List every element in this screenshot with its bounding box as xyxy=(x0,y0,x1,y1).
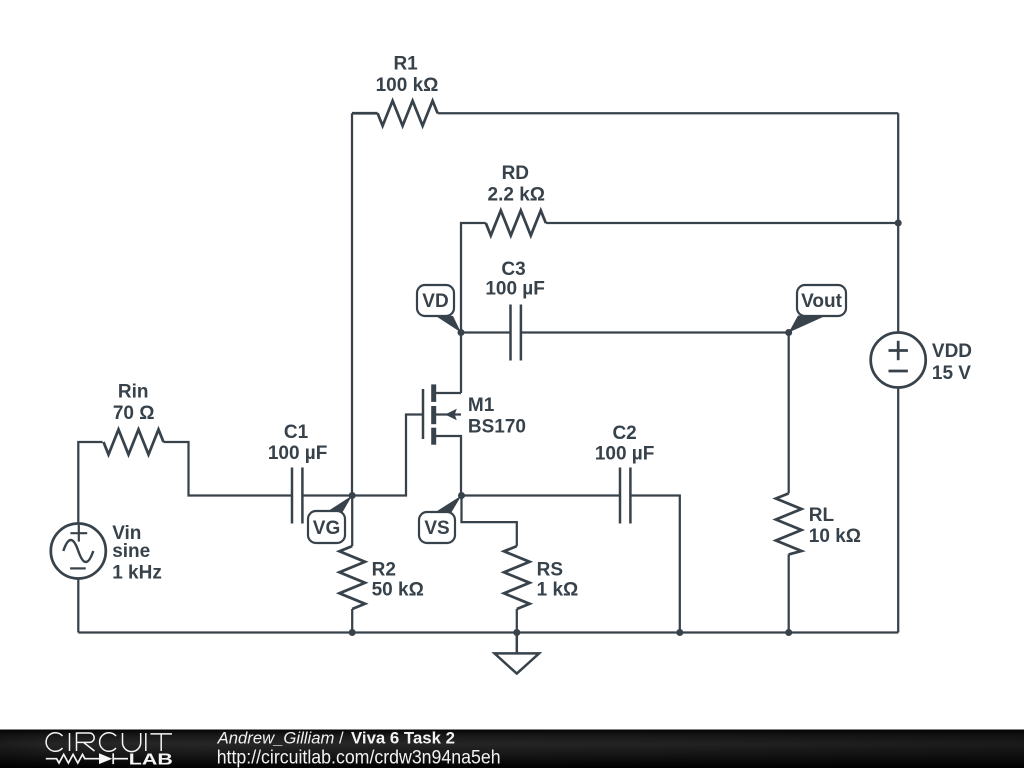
VDD plus sign xyxy=(889,341,908,360)
footer bar xyxy=(0,730,1024,768)
logo letter C xyxy=(46,733,62,752)
logo letter I xyxy=(145,733,147,751)
node dot VG xyxy=(349,492,356,499)
voltage source VDD circle xyxy=(871,333,926,388)
transistor M1 channel dash drain xyxy=(431,384,436,402)
svg-text:VD: VD xyxy=(422,291,448,312)
svg-text:M1: M1 xyxy=(468,395,495,416)
svg-text:Andrew_Gilliam / Viva 6 Task 2: Andrew_Gilliam / Viva 6 Task 2 xyxy=(217,730,455,748)
svg-text:100 µF: 100 µF xyxy=(595,444,655,465)
logo letter T xyxy=(150,734,172,751)
node dot C2 bottom xyxy=(676,629,683,636)
node dot VD xyxy=(458,329,465,336)
transistor M1 gate line xyxy=(422,389,425,439)
wire M1 drain lead up to RD xyxy=(436,392,461,394)
svg-text:Rin: Rin xyxy=(118,381,149,402)
svg-text:100 µF: 100 µF xyxy=(268,443,328,464)
logo letter R xyxy=(77,733,95,751)
Vin plus sign xyxy=(70,525,87,542)
node dot VS xyxy=(458,492,465,499)
wire RS bottom lead xyxy=(516,609,518,633)
resistor RS zigzag xyxy=(504,546,530,609)
node flag Vout xyxy=(789,285,846,333)
wire node VG to gate of M1 xyxy=(352,415,423,496)
node flag VD xyxy=(417,285,461,333)
wire right vertical rail from top corner to VDD top xyxy=(897,113,899,332)
logo letter I xyxy=(69,733,71,751)
resistor RL zigzag xyxy=(776,493,802,554)
svg-text:LAB: LAB xyxy=(129,752,173,768)
wire RL bottom lead to ground rail xyxy=(788,554,790,632)
wire M1 source lead down to VS xyxy=(436,436,461,496)
svg-text:70 Ω: 70 Ω xyxy=(113,403,155,424)
logo letter C xyxy=(100,733,116,752)
svg-text:VS: VS xyxy=(424,518,449,539)
footer logo CIRCUIT wordmark xyxy=(46,733,172,752)
ground symbol xyxy=(495,633,540,674)
svg-text:1 kΩ: 1 kΩ xyxy=(537,580,579,601)
wire C1 right plate to node VG xyxy=(302,494,352,496)
svg-text:Vout: Vout xyxy=(801,291,842,312)
wire M1 body lead xyxy=(436,413,461,415)
node dot RS bottom xyxy=(513,629,520,636)
VDD minus sign xyxy=(889,370,908,373)
transistor M1 body arrow xyxy=(445,409,457,421)
capacitor C1 plates xyxy=(292,468,302,524)
svg-text:100 kΩ: 100 kΩ xyxy=(376,75,439,96)
voltage source Vin circle xyxy=(51,524,106,579)
node flag VS xyxy=(419,496,462,544)
svg-text:http://circuitlab.com/crdw3n94: http://circuitlab.com/crdw3n94na5eh xyxy=(217,748,501,768)
transistor M1 channel dash source xyxy=(431,428,436,445)
wire node VD to C3 left plate xyxy=(461,331,511,333)
wire C3 right plate to node Vout xyxy=(521,331,789,333)
wire left vertical from R1 down to node VG xyxy=(351,113,353,495)
wire RD right lead to right rail xyxy=(546,222,898,224)
capacitor C3 plates xyxy=(511,305,521,361)
svg-text:C1: C1 xyxy=(284,422,309,443)
wire Vin bottom vertical to ground rail xyxy=(77,579,79,633)
node junction dots xyxy=(349,220,902,637)
wire node VS to RS top xyxy=(462,496,517,547)
svg-text:RD: RD xyxy=(502,163,529,184)
node dot right rail RD junction xyxy=(895,220,902,227)
svg-text:BS170: BS170 xyxy=(468,417,526,438)
node dot Vout xyxy=(785,329,792,336)
Vin minus sign xyxy=(70,567,86,569)
footer logo resistor-diode symbol xyxy=(46,753,128,764)
svg-text:2.2 kΩ: 2.2 kΩ xyxy=(488,185,546,206)
node flag VG xyxy=(308,496,352,544)
wire R2 top lead xyxy=(351,496,353,547)
resistor Rin zigzag xyxy=(104,430,164,455)
wire Rin right lead down to C1 xyxy=(164,442,293,496)
svg-text:50 kΩ: 50 kΩ xyxy=(372,580,424,601)
wire bottom ground rail xyxy=(78,631,898,633)
wire top rail from R1 to right corner xyxy=(438,112,899,114)
svg-text:C2: C2 xyxy=(612,423,636,444)
svg-text:RL: RL xyxy=(809,505,835,526)
resistor RD zigzag xyxy=(486,211,546,236)
svg-text:C3: C3 xyxy=(501,259,525,280)
svg-text:RS: RS xyxy=(537,559,563,580)
svg-text:10 kΩ: 10 kΩ xyxy=(809,526,861,547)
resistor R2 zigzag xyxy=(339,546,365,609)
resistor R1 zigzag xyxy=(378,101,438,126)
svg-text:15 V: 15 V xyxy=(932,363,971,384)
transistor M1 channel dash body xyxy=(431,406,436,424)
svg-text:VDD: VDD xyxy=(932,341,972,362)
node dot R2 bottom xyxy=(349,629,356,636)
node dot RL bottom xyxy=(785,629,792,636)
svg-text:VG: VG xyxy=(313,518,340,539)
svg-text:1 kHz: 1 kHz xyxy=(112,563,162,584)
wire R2 bottom lead xyxy=(351,609,353,633)
wire RD rail left lead and vertical down to drain xyxy=(461,223,486,393)
capacitor C2 plates xyxy=(620,468,630,524)
wire Vin top vertical to Rin xyxy=(78,442,102,523)
wire C2 right plate down to ground rail xyxy=(630,496,679,633)
logo letter U xyxy=(123,733,141,752)
svg-text:100 µF: 100 µF xyxy=(485,278,545,299)
svg-text:sine: sine xyxy=(112,541,150,562)
Vin sine wave xyxy=(63,540,93,562)
svg-text:R1: R1 xyxy=(393,53,418,74)
wire Vout vertical down to RL xyxy=(788,333,790,494)
wire R1 left lead corner xyxy=(352,112,378,115)
wire node VS to C2 left plate xyxy=(462,494,621,496)
wire right vertical rail from VDD bottom to ground rail xyxy=(897,388,899,633)
svg-text:R2: R2 xyxy=(372,559,396,580)
